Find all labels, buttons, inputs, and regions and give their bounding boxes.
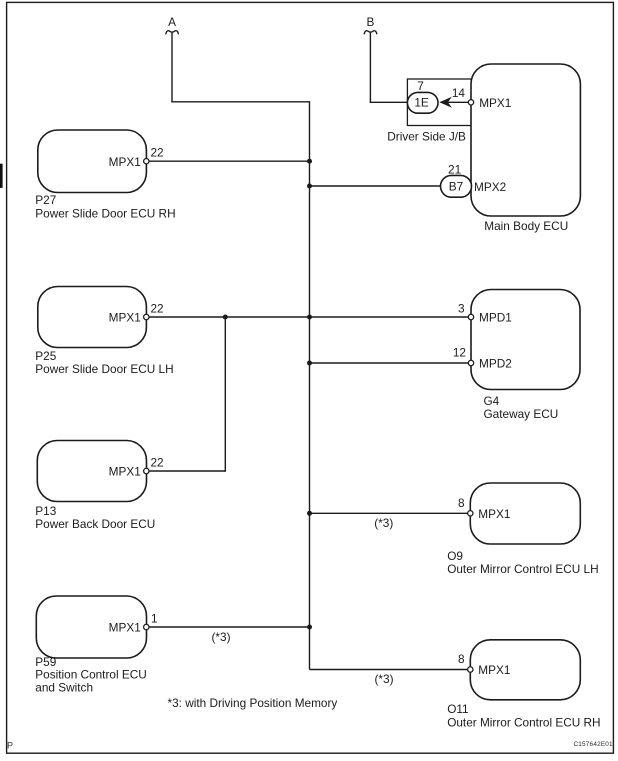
svg-text:14: 14 <box>452 86 466 100</box>
svg-text:Driver Side J/B: Driver Side J/B <box>387 129 466 143</box>
svg-text:B: B <box>366 15 374 29</box>
wire bus to O9 MPX1 <box>310 512 469 514</box>
pin circle Main Body ECU MPX1 <box>468 100 473 105</box>
svg-text:O11: O11 <box>447 702 468 716</box>
wire P59 pin 1 to bus <box>148 626 310 628</box>
pin circle P59 MPX1 <box>144 624 149 629</box>
ECU box Main Body ECU <box>471 64 580 233</box>
svg-text:P13: P13 <box>35 504 56 518</box>
svg-text:22: 22 <box>151 146 164 160</box>
ECU box P27 Power Slide Door ECU RH <box>35 130 175 221</box>
pin 21 label B7 <box>448 163 461 177</box>
pin circle O9 MPX1 <box>468 511 473 516</box>
svg-text:Power Slide Door ECU RH: Power Slide Door ECU RH <box>35 207 175 221</box>
footnote *3 <box>168 696 338 710</box>
svg-text:MPX1: MPX1 <box>478 507 510 521</box>
vertical bus wire <box>309 101 311 669</box>
ECU box O9 Outer Mirror Control ECU LH <box>447 483 598 576</box>
svg-text:Power Back Door ECU: Power Back Door ECU <box>35 517 155 531</box>
wire P13 riser up to P25 wire <box>224 316 226 471</box>
svg-text:(*3): (*3) <box>211 630 230 644</box>
pin 14 label <box>452 86 466 100</box>
node B break symbol <box>364 31 377 35</box>
svg-text:and Switch: and Switch <box>35 680 93 694</box>
connector block Driver Side J/B <box>387 79 471 143</box>
pin 12 label MPD2 <box>453 345 466 359</box>
svg-text:O9: O9 <box>447 549 463 563</box>
pin 7 label 1E <box>417 79 424 93</box>
svg-text:MPX1: MPX1 <box>109 311 141 325</box>
pin 22 label P25 <box>151 302 164 316</box>
svg-text:P27: P27 <box>35 193 56 207</box>
wire A horizontal to bus <box>171 101 309 103</box>
wire P13 pin 22 horizontal <box>148 470 225 472</box>
svg-text:MPX1: MPX1 <box>109 621 141 635</box>
svg-text:21: 21 <box>448 163 461 177</box>
wire B riser <box>369 33 371 103</box>
svg-text:G4: G4 <box>484 394 500 408</box>
pin circle P13 MPX1 <box>144 468 149 473</box>
junction dot O9 wire/bus <box>307 511 312 516</box>
pin circle G4 MPD2 <box>468 360 473 365</box>
svg-text:(*3): (*3) <box>374 672 393 686</box>
left margin tab <box>0 164 3 188</box>
svg-text:MPD1: MPD1 <box>479 311 512 325</box>
wire bus to connector B7 <box>310 185 442 187</box>
junction dot B7 wire/bus <box>307 184 312 189</box>
arrowhead into 1E <box>439 97 452 108</box>
pin circle P25 MPX1 <box>144 314 149 319</box>
svg-text:(*3): (*3) <box>374 516 393 530</box>
svg-text:P25: P25 <box>35 349 56 363</box>
pin 22 label P13 <box>151 456 164 470</box>
pin circle O11 MPX1 <box>468 667 473 672</box>
svg-text:7: 7 <box>417 79 424 93</box>
svg-text:A: A <box>168 15 176 29</box>
pin 3 label MPD1 <box>458 302 465 316</box>
wire P27 pin 22 to bus <box>148 160 310 162</box>
junction dot P27/bus <box>307 159 312 164</box>
svg-text:MPX1: MPX1 <box>109 465 141 479</box>
ECU box G4 Gateway ECU <box>471 290 580 422</box>
ECU box P25 Power Slide Door ECU LH <box>35 287 173 377</box>
ECU box P13 Power Back Door ECU <box>35 441 155 532</box>
svg-text:Gateway ECU: Gateway ECU <box>484 407 559 421</box>
wire P25 pin 22 to G4 MPD1 <box>148 316 469 318</box>
svg-text:12: 12 <box>453 345 466 359</box>
wire B horizontal to connector 1E <box>370 101 409 103</box>
junction dot bus crossing P25 wire <box>307 315 312 320</box>
svg-text:Outer Mirror Control ECU RH: Outer Mirror Control ECU RH <box>447 715 600 729</box>
pin 8 label O11 <box>458 652 465 666</box>
svg-text:8: 8 <box>458 652 465 666</box>
svg-text:MPX1: MPX1 <box>109 155 141 169</box>
wire label (*3) on O11 wire <box>374 672 393 686</box>
svg-text:Main Body ECU: Main Body ECU <box>484 219 568 233</box>
pin 1 label P59 <box>151 612 158 626</box>
svg-text:B7: B7 <box>449 180 463 194</box>
wire bus bottom to O11 MPX1 <box>310 669 469 671</box>
wire 1E to Main Body ECU MPX1 <box>441 101 470 103</box>
wire label (*3) on P59 wire <box>211 630 230 644</box>
wire A riser <box>171 33 173 102</box>
ECU box P59 Position Control ECU and Switch <box>35 596 146 694</box>
svg-text:MPX1: MPX1 <box>479 96 511 110</box>
svg-text:3: 3 <box>458 302 465 316</box>
svg-text:*3: with Driving Position Memo: *3: with Driving Position Memory <box>168 696 338 710</box>
svg-text:P: P <box>7 741 13 751</box>
svg-text:Outer Mirror Control ECU LH: Outer Mirror Control ECU LH <box>447 562 598 576</box>
svg-text:MPD2: MPD2 <box>479 357 512 371</box>
ECU box O11 Outer Mirror Control ECU RH <box>447 640 600 730</box>
svg-text:MPX2: MPX2 <box>474 180 506 194</box>
junction dot P59/bus <box>307 625 312 630</box>
svg-text:C157642E01: C157642E01 <box>573 741 613 748</box>
node A break symbol <box>166 31 179 35</box>
svg-text:22: 22 <box>151 456 164 470</box>
junction dot MPD2 wire/bus <box>307 361 312 366</box>
svg-text:MPX1: MPX1 <box>478 663 510 677</box>
node A label <box>168 15 176 29</box>
connector oval 1E <box>407 92 438 113</box>
drawing number C157642E01 <box>573 741 613 748</box>
connector oval B7 <box>441 175 472 197</box>
svg-text:Power Slide Door ECU LH: Power Slide Door ECU LH <box>35 362 173 376</box>
pin circle P27 MPX1 <box>144 159 149 164</box>
node B label <box>366 15 374 29</box>
svg-text:1: 1 <box>151 612 158 626</box>
pin circle G4 MPD1 <box>468 314 473 319</box>
svg-text:1E: 1E <box>414 96 429 110</box>
svg-text:22: 22 <box>151 302 164 316</box>
wire label (*3) on O9 wire <box>374 516 393 530</box>
junction dot P13 riser joins P25 wire <box>223 315 228 320</box>
wire bus to G4 MPD2 <box>310 362 470 364</box>
pin 22 label P27 <box>151 146 164 160</box>
pin 8 label O9 <box>458 496 465 510</box>
page letter P <box>7 741 13 751</box>
svg-text:8: 8 <box>458 496 465 510</box>
